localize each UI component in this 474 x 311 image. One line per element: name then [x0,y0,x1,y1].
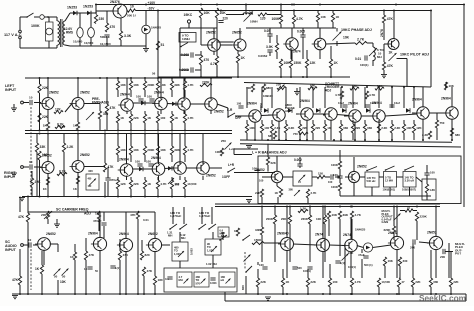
svg-text:22K: 22K [302,126,308,130]
wire primary top drop [56,17,58,21]
box filter coil box 2 [403,172,416,188]
label 1N4025 b [355,228,366,232]
junction bus dot 30 [184,130,186,132]
capacitor C sc in [28,238,32,248]
wire bosc 258 up [257,262,259,265]
wire sc q23 coll [125,212,127,239]
wire filter cap2 lead [90,13,92,27]
junction bus dot 35 [77,196,79,198]
capacitor C 470uf ra [105,178,117,182]
transistor Q9 2N964 [118,93,133,112]
svg-text:10,000: 10,000 [73,40,83,44]
potentiometer pot 10K bosc [342,254,349,261]
wire sc drop f [119,260,121,294]
wire ff base stub 1 [268,114,271,116]
wire bottom return vert [465,294,467,301]
wire mid 37 drop [36,134,38,144]
label zener 1N4025 [151,26,162,30]
wire sc drop g [143,276,145,294]
wire lodiv col2 5 [184,155,186,162]
svg-text:2N74: 2N74 [343,233,351,237]
wire lodiv low col 3 [157,177,159,180]
wire sc in gnd [19,197,21,213]
svg-text:4.7K: 4.7K [354,280,361,284]
svg-text:2N652: 2N652 [427,231,437,235]
svg-text:2.2K: 2.2K [394,126,401,130]
wire lodiv q coll 203 [202,134,204,165]
junction bus dot 58 [289,206,291,208]
label 1.31 MH [167,231,173,235]
wire lodiv q coll 126.5 [126,134,128,165]
wire sc 104 drop2 [103,226,105,238]
resistor R 1K ra e1 [46,177,49,185]
resistor R 560 b [375,84,384,90]
svg-text:1N4025: 1N4025 [151,26,162,30]
wire out 413 up [412,243,414,278]
wire ff col2 5 [312,133,314,140]
resistor R 220K up [200,81,212,87]
wire osc cap wire2 [195,54,201,56]
wire scm 300 drop [299,157,301,164]
wire out 385 low [384,266,386,278]
wire AC bottom lead [19,39,21,48]
wire updiv q top 127 [126,90,128,99]
wire osc 294 up [293,11,295,16]
label +10V [148,1,157,5]
wire link d q28 [373,245,391,248]
label lodiv 100 [175,184,180,187]
svg-text:680: 680 [343,126,348,130]
fuse F1 [40,15,45,20]
wire lodiv low col 2 [144,177,146,180]
junction bus dot 122 [330,76,332,78]
junction bus dot 113 [393,10,395,12]
wire updiv q drop 211 [210,110,212,114]
junction bus dot 37 [117,196,119,198]
resistor R 2.7K [355,38,367,45]
wire left in lead2 [34,102,41,104]
svg-text:2N652: 2N652 [357,165,367,169]
wire tank boxB top [212,232,214,239]
filter coil label 0 [367,176,376,183]
resistor R updiv 3 [156,81,166,90]
svg-text:200K: 200K [266,217,274,221]
wire pilot pot out [397,58,408,60]
switch tank out switch [242,235,250,241]
wire ph drop c [306,68,308,77]
svg-text:100K: 100K [215,150,223,154]
wire sc col b [19,260,21,276]
junction bus dot 95 [350,293,352,295]
svg-text:680: 680 [433,280,438,284]
resistor R 22K scm2 [255,189,264,197]
wire ff top 313 [312,87,314,108]
wire sc osc out [161,244,170,246]
capacitor C osc .0068 [179,67,193,72]
wire out 400 low [399,266,401,278]
wire ff base stub 6 [412,112,415,114]
resistor R 4.7K ff1 [335,91,344,99]
wire ff couple c2 [361,115,373,117]
junction bus dot 32 [27,196,29,198]
junction bus dot 24 [144,130,146,132]
transistor Q1 2N376 [110,0,127,18]
svg-text:47K: 47K [89,253,95,257]
svg-text:10K: 10K [343,36,350,40]
junction bus dot 76 [85,293,87,295]
box filter coil box 0 [365,172,379,187]
filter cap C2 body [88,28,95,38]
svg-text:12K: 12K [310,61,317,65]
junction bus dot 130 [445,86,447,88]
resistor R 180 scb [153,276,162,285]
tank coil E label [221,275,226,282]
wire ff col2 0 [246,133,248,140]
wire la col2 [39,93,41,131]
wire pilot emitter drop [383,44,385,62]
wire ph 331 up [330,46,332,59]
wire tank boxA bot [179,261,181,268]
svg-text:100: 100 [333,173,338,177]
label MH [377,55,382,59]
label -10V [148,7,156,11]
wire updiv low col2 1 [130,123,132,131]
resistor R osc 120 [258,13,267,21]
junction bus dot 85 [307,293,309,295]
resistor R lodiv low 4 [170,180,179,189]
svg-text:10,500: 10,500 [187,182,197,186]
svg-text:22K: 22K [453,280,458,284]
junction bus dot 128 [403,86,405,88]
resistor R 220K out [415,212,427,221]
label OFF low [222,175,230,179]
wire balance stub b [234,154,252,156]
wire ph 307 up [306,50,308,59]
svg-text:47K: 47K [130,213,136,217]
svg-text:100K: 100K [31,24,40,28]
wire ff top 300 [299,87,301,108]
resistor R 680 ff2 [268,131,277,139]
wire pilot base wire [384,43,388,45]
wire filt stub b1 [371,187,373,196]
box pilot lamp box [46,22,54,41]
wire updiv low col 0 [117,111,119,114]
wire osc cap lwire [180,69,189,71]
resistor R 47K scb3 [142,267,152,276]
wire lplusr wire [209,167,222,169]
wire updiv col 1 [130,78,132,81]
switch tank switch a1 [169,224,177,230]
junction bus dot 34 [47,196,49,198]
svg-text:2N964: 2N964 [119,232,129,236]
wire sc q24 coll [154,212,156,239]
label EMPHASIS [92,101,110,105]
wire ff emit 452 [451,119,453,140]
wire updiv low col2 4 [171,123,173,131]
wire sc 42 mid [41,251,43,265]
capacitor C left in [29,96,33,106]
box tank box A [172,242,188,261]
wire outnet mid [426,175,428,179]
svg-text:10,500: 10,500 [381,280,390,284]
svg-text:INPUT: INPUT [5,88,17,92]
wire la col [39,78,41,84]
wire r1k dn [332,22,334,28]
wire lodiv couple b [164,167,174,170]
wire updiv low col 3 [157,111,159,114]
resistor R 1K sc3 [97,211,100,219]
wire updiv thru 145 [144,123,146,131]
label scm base 100 [259,179,264,183]
capacitor C 47uf out [358,253,369,258]
wire ff top 353 [352,87,354,108]
wire sw dash [244,252,246,270]
label MULTI g [382,209,391,213]
wire ff col2 1 [261,133,263,140]
svg-text:100: 100 [328,180,333,184]
wire osc feed drop [157,11,159,78]
wire reg collector [96,10,113,12]
svg-text:10K: 10K [332,213,338,217]
resistor R 150K [252,238,264,245]
cap 0.003 vert [190,248,194,255]
junction bus dot 38 [130,196,132,198]
wire q2 base h [201,44,208,46]
svg-text:220: 220 [315,126,320,130]
wire ff couple e [429,112,446,114]
junction bus dot 27 [157,133,159,135]
junction bus dot 91 [430,293,432,295]
resistor R botr 1 [397,278,405,287]
wire sc e drop [43,250,45,265]
junction bus dot 68 [393,206,395,208]
svg-text:MH: MH [179,278,183,282]
junction bus dot 50 [451,139,453,141]
resistor R osc 10K b [215,8,226,18]
svg-text:220K: 220K [420,215,428,219]
resistor R 1K ra e2 [73,176,80,191]
resistor R 12K ph [305,59,316,68]
svg-text:10K: 10K [316,217,322,221]
wire ff top 247 [246,87,248,108]
wire ra col4 [104,134,106,164]
wire q26 coll [322,207,324,240]
wire sc drop d [74,260,76,294]
box phase box scm [293,171,312,186]
wire emitter res drop2 [120,40,122,46]
wire la e res bot2 [77,129,79,132]
junction bus dot 70 [261,206,263,208]
wire lodiv q drop 180 [179,176,181,180]
svg-text:22K: 22K [260,280,266,284]
wire scm emit [276,183,278,186]
wire updiv col 4 [171,78,173,81]
wire q25 coll [286,207,288,239]
resistor R 680 sch b [262,84,271,92]
resistor R 1K la e2 [73,122,80,130]
svg-text:GAIN: GAIN [382,220,389,224]
capacitor C 200 a [410,239,415,249]
wire sc 120 up [119,239,121,251]
label 19KC [184,13,193,17]
label audio top bus [0,0,1,1]
resistor R 33K mid [35,143,46,152]
wire filter cap lead b [79,38,81,46]
wire la q8 coll [77,78,79,98]
resistor R ff 12 [402,124,412,133]
wire sc vert c [57,244,59,252]
resistor R 1K scm [275,189,283,197]
wire bias bus lower [25,133,232,135]
capacitor C 10uf b [365,101,375,107]
box osc coil box [179,33,196,43]
transistor Qff5 [370,101,385,122]
label 3.12 MH [180,233,186,237]
svg-text:10K: 10K [120,83,126,87]
label 680 ffr [455,133,460,137]
wire updiv couple a [133,102,155,104]
wire schmitt gnd stub [296,88,298,92]
capacitor C tank mid [210,278,217,285]
svg-text:2N964: 2N964 [247,102,257,106]
wire tank c stub [222,232,224,240]
resistor R 200 sc [41,211,50,219]
filter coil label 1 [385,176,393,183]
resistor R updiv low 2 [143,114,151,123]
wire secondary top out [65,13,70,21]
label ADJ ff [285,109,291,113]
box tank outer box [164,268,237,292]
label 50 a [54,275,58,279]
resistor R bot 2 [306,278,316,287]
wire r1k up [332,11,334,14]
wire ph 291 up [290,48,292,59]
wire filt q base wire [345,176,348,178]
svg-text:47K: 47K [387,17,394,21]
wire filt q coll [353,157,355,171]
wire filt link b [397,176,404,178]
wire ph 277 low [276,52,278,59]
potentiometer pot tank E [226,279,231,284]
capacitor C 470uf sc [93,219,107,225]
junction bus dot 67 [351,206,353,208]
wire bot col 3 [329,287,331,294]
wire updiv thru 158 [157,123,159,131]
label RIGHT [4,171,16,175]
junction bus dot 59 [309,206,311,208]
svg-text:2N652: 2N652 [148,232,158,236]
junction bus dot 10 [184,77,186,79]
svg-text:50: 50 [54,275,58,279]
label 126 [60,125,65,129]
junction bus dot 21 [117,133,119,135]
svg-text:47K: 47K [147,269,153,273]
wire filt 340 bot [339,191,341,196]
svg-text:470uf: 470uf [110,178,118,182]
diode updiv diode a [141,101,145,105]
junction bus dot 96 [396,293,398,295]
svg-text:OFF: OFF [235,116,241,120]
wire sc 138 drop [137,219,139,294]
watermark SeekIC.com [419,293,466,303]
resistor R 1K sc [35,265,44,274]
potentiometer pot schmitt [278,85,285,92]
wire updiv couple b [167,103,178,106]
wire la col3 [106,78,108,104]
wire outnet res [426,179,428,184]
resistor R updiv low 3 [156,114,165,123]
svg-text:ADJ: ADJ [325,88,332,92]
wire ra 32 drop [31,171,33,178]
label 38KC [285,103,292,107]
wire ra gnd drop b [47,190,49,197]
wire bosc low 330 [329,264,331,278]
resistor R 220K out2 [384,226,396,234]
transistor Q2 2N652 [205,31,220,52]
wire sc drop h [154,285,156,294]
svg-text:INPUT: INPUT [4,175,16,179]
ground left input ground [11,108,17,111]
svg-text:2N78: 2N78 [380,29,384,37]
wire out drop a3 [351,219,353,240]
junction bus dot 83 [257,293,259,295]
resistor R botr 3 [429,278,438,287]
ground sc gnd top [54,224,60,227]
resistor R ff 11 [390,124,401,133]
wire filt 340 thru [339,150,341,161]
wire updiv q top 161 [160,90,162,99]
wire updiv q coll 127 [126,78,128,99]
wire secondary bottom out [65,45,70,46]
transistor Q23 2N964 [117,232,133,252]
wire out drop a [328,219,330,236]
label PLEX o [455,245,463,249]
potentiometer pot 600 [244,255,251,262]
wire ff base stub 7 [441,112,444,114]
wire tank boxA top [179,232,181,242]
transistor Q17 2N964 [171,162,186,175]
wire filter cap lead [79,13,81,27]
svg-text:-10V: -10V [148,7,156,11]
wire out 362 mid [361,249,363,253]
wire ff 446 top [445,82,447,87]
svg-text:20K: 20K [281,217,287,221]
diode updiv diode b [172,102,176,106]
wire lodiv col 0 [117,134,119,147]
label 1K tank [234,229,239,233]
wire lodiv col2 1 [130,155,132,162]
wire ff col 1 [261,120,263,124]
wire r13k dn [317,22,319,28]
junction bus dot 43 [254,139,256,141]
wire ff coll top 452 [451,87,453,107]
svg-text:2N964: 2N964 [300,99,310,103]
wire tank stub a [172,207,174,224]
wire updiv q coll 184 [183,78,185,99]
capacitor C 101 bosc [335,261,345,265]
wire tank stub a2 [183,207,185,224]
wire right rail drop [430,11,432,88]
wire lodiv low col2 4 [171,189,173,197]
resistor R 100K filt a [331,161,342,169]
resistor R 51 out [405,206,413,213]
resistor R 47K la [105,104,116,113]
wire bosc 262 low [261,235,263,262]
wire ph q5 coll [319,28,321,38]
svg-text:MH: MH [181,236,185,240]
wire osc 281 up [280,5,282,15]
svg-text:2.7K: 2.7K [357,38,365,42]
